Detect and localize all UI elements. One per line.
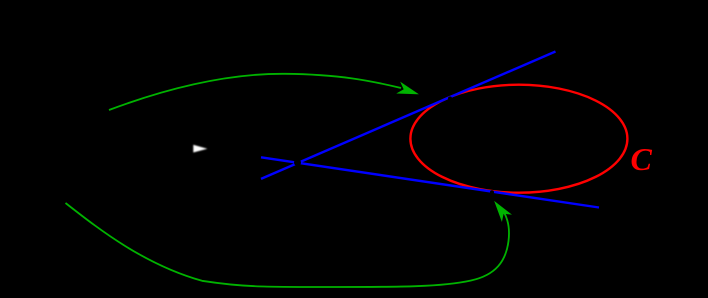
tangent line t2 (shallow, lower)	[261, 157, 599, 207]
green arrow (bottom) shaft	[66, 203, 510, 287]
green arrow (bottom) head	[495, 202, 511, 221]
black dot at crossing point	[294, 159, 301, 166]
green arrow (top) head	[398, 83, 418, 94]
tangent line t1 (steep, upper)	[261, 52, 556, 179]
svg-text:C: C	[631, 141, 653, 177]
white arrowhead (of invisible black arrow)	[194, 145, 207, 152]
black dot at lower tangency	[490, 190, 494, 194]
green arrow (top) shaft	[109, 74, 401, 110]
black dot at upper tangency	[448, 97, 452, 101]
conic C (red ellipse)	[410, 85, 627, 193]
